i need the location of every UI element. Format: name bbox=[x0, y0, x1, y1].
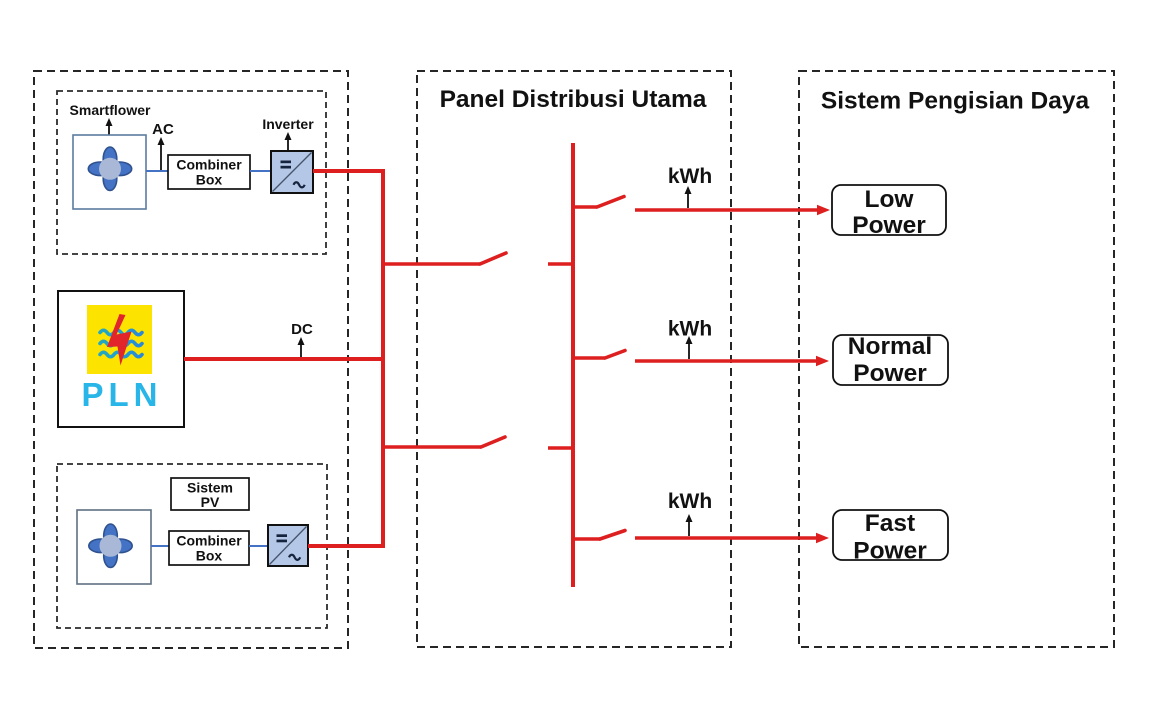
svg-text:kWh: kWh bbox=[668, 318, 712, 341]
load: Normal Power charger bbox=[833, 335, 948, 385]
feeder wire 2: left bus to switch bbox=[383, 445, 481, 449]
inverter U1 (top) bbox=[271, 151, 313, 193]
flower icon (top) bbox=[88, 147, 131, 191]
switch S4 blade bbox=[605, 351, 625, 359]
svg-text:DC: DC bbox=[291, 321, 313, 338]
switch S2 stub to main bus bbox=[548, 446, 573, 450]
svg-text:Power: Power bbox=[853, 360, 927, 387]
svg-text:Inverter: Inverter bbox=[262, 116, 314, 132]
switch S1 stub to main bus bbox=[548, 262, 573, 266]
left collector bus (red vertical) bbox=[381, 169, 385, 548]
PLN logo yellow field bbox=[87, 305, 152, 374]
arrow to Smartflower label bbox=[106, 118, 113, 135]
PLN logo lightning bolt bbox=[107, 314, 132, 366]
inverter U2 (bottom) bbox=[268, 525, 308, 566]
switch S5 blade bbox=[600, 531, 625, 540]
arrow AC bbox=[158, 137, 165, 170]
svg-text:Box: Box bbox=[196, 172, 223, 188]
combiner box CB1 (top) bbox=[168, 155, 250, 189]
svg-text:AC: AC bbox=[152, 121, 174, 138]
feeder wire 1: left bus to switch bbox=[383, 262, 480, 266]
combiner box CB2 (bottom) bbox=[169, 531, 249, 565]
wire: combiner to inverter (blue) bbox=[250, 170, 271, 172]
wire to Normal Power with arrow bbox=[635, 359, 817, 363]
arrow DC bbox=[298, 337, 305, 357]
load: Fast Power charger bbox=[833, 510, 948, 560]
svg-text:Panel Distribusi Utama: Panel Distribusi Utama bbox=[440, 86, 707, 113]
svg-text:kWh: kWh bbox=[668, 490, 712, 513]
wire: combiner to inverter (blue) bbox=[249, 545, 268, 547]
arrow Inverter bbox=[285, 132, 292, 151]
wire: inverter U1 to left bus (red) bbox=[313, 169, 383, 173]
enclosure: Panel Distribusi Utama (dashed) bbox=[417, 71, 731, 647]
switch S1 blade bbox=[480, 253, 506, 264]
pv array unit (bottom) bbox=[77, 510, 151, 584]
svg-text:Sistem Pengisian Daya: Sistem Pengisian Daya bbox=[821, 88, 1090, 115]
svg-text:Power: Power bbox=[852, 212, 926, 239]
switch S2 blade bbox=[481, 437, 505, 447]
wire: PLN to left bus (red) bbox=[184, 357, 383, 361]
enclosure: left source group (dashed) bbox=[34, 71, 348, 648]
branch 1 stub from main bus bbox=[573, 205, 597, 209]
wire: flower to combiner (blue) bbox=[146, 170, 168, 172]
svg-text:Combiner: Combiner bbox=[176, 157, 242, 173]
svg-text:Normal: Normal bbox=[848, 333, 932, 360]
flower icon (bottom) bbox=[89, 524, 132, 568]
smartflower unit SF1 (top) bbox=[73, 135, 146, 209]
label box Sistem PV bbox=[171, 478, 249, 510]
svg-text:Low: Low bbox=[865, 186, 915, 213]
wire: inverter U2 to left bus (red) bbox=[308, 544, 383, 548]
load: Low Power charger bbox=[832, 185, 946, 235]
svg-text:Fast: Fast bbox=[865, 510, 915, 537]
svg-text:PLN: PLN bbox=[82, 376, 163, 413]
svg-text:Combiner: Combiner bbox=[176, 533, 242, 549]
svg-text:Power: Power bbox=[853, 538, 927, 565]
branch 2 stub from main bus bbox=[573, 356, 605, 360]
switch S3 blade bbox=[597, 197, 624, 208]
wire: pv flower to combiner (blue) bbox=[151, 545, 169, 547]
wire to Fast Power with arrow bbox=[635, 536, 817, 540]
enclosure: Sistem PV sub-system (dashed) bbox=[57, 464, 327, 628]
enclosure: Smartflower sub-system (dashed) bbox=[57, 91, 326, 254]
svg-text:kWh: kWh bbox=[668, 165, 712, 188]
enclosure: Sistem Pengisian Daya (dashed) bbox=[799, 71, 1114, 647]
svg-text:Box: Box bbox=[196, 548, 223, 564]
branch 3 stub from main bus bbox=[573, 537, 600, 541]
svg-text:Smartflower: Smartflower bbox=[70, 102, 151, 118]
main distribution bus (red vertical) bbox=[571, 143, 575, 587]
wire to Low Power with arrow bbox=[635, 208, 818, 212]
PLN utility box bbox=[58, 291, 184, 427]
svg-text:PV: PV bbox=[201, 494, 220, 510]
